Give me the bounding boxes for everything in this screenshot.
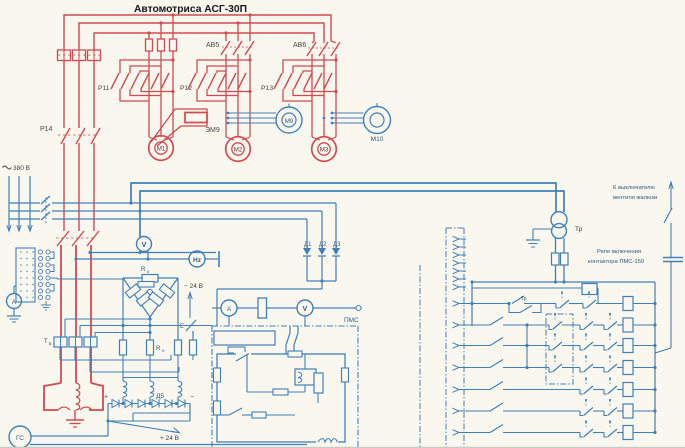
svg-text:+ 24 В: + 24 В: [160, 435, 179, 442]
svg-text:М3: М3: [320, 147, 329, 154]
svg-text:380 В: 380 В: [13, 165, 30, 172]
svg-text:Реле включения: Реле включения: [597, 249, 641, 255]
svg-text:М9: М9: [285, 118, 294, 125]
svg-text:АВ5: АВ5: [206, 42, 219, 49]
svg-text:АВ6: АВ6: [293, 42, 306, 49]
svg-text:контактора ПМС-150: контактора ПМС-150: [588, 259, 644, 265]
svg-text:− 24 В: − 24 В: [184, 283, 203, 290]
svg-text:А: А: [12, 299, 17, 306]
svg-text:М2: М2: [234, 147, 243, 154]
svg-text:А: А: [227, 306, 232, 313]
svg-text:Д1: Д1: [304, 242, 312, 248]
svg-text:ГС: ГС: [16, 435, 24, 442]
svg-text:М10: М10: [371, 136, 384, 143]
svg-text:Р13: Р13: [261, 85, 273, 92]
svg-text:Автомотриса АСГ-30П: Автомотриса АСГ-30П: [134, 4, 247, 15]
svg-text:Д2: Д2: [319, 242, 327, 248]
svg-text:Т: Т: [44, 339, 48, 345]
svg-text:R: R: [141, 267, 146, 273]
svg-text:V: V: [142, 242, 147, 249]
svg-text:R: R: [156, 346, 161, 352]
svg-text:Д5: Д5: [156, 393, 164, 400]
svg-text:−: −: [190, 394, 194, 401]
svg-text:Тр: Тр: [575, 226, 583, 233]
svg-text:+: +: [104, 394, 108, 401]
svg-text:Е: Е: [180, 324, 184, 330]
svg-text:Hz: Hz: [193, 257, 202, 264]
svg-text:ЭМ9: ЭМ9: [205, 127, 220, 134]
svg-text:Д3: Д3: [333, 242, 341, 248]
svg-text:Тр: Тр: [521, 296, 527, 302]
svg-text:вентиля жалюзи: вентиля жалюзи: [613, 195, 657, 201]
svg-text:Р12: Р12: [180, 85, 192, 92]
svg-text:М1: М1: [157, 146, 166, 153]
svg-text:ПМС: ПМС: [344, 317, 359, 324]
svg-text:К выключателю: К выключателю: [613, 185, 656, 191]
svg-text:V: V: [303, 306, 308, 313]
svg-text:Р14: Р14: [40, 126, 53, 133]
svg-text:Р11: Р11: [98, 85, 110, 92]
